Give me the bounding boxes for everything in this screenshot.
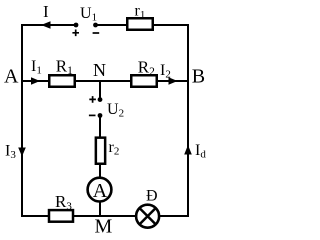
wire: r1 to top-right corner (152, 24, 189, 26)
svg-text:B: B (192, 65, 205, 87)
lamp D (circle with X) (136, 205, 159, 228)
terminal dot: U2 negative terminal (98, 113, 103, 118)
resistor R3 (49, 210, 73, 222)
terminal dot: U1 negative terminal (93, 23, 98, 28)
wire: right side, top-right corner down to node B (187, 24, 189, 81)
polarity sign - of U1 (93, 32, 100, 34)
current arrow Id (pointing up) on right wire (184, 145, 192, 155)
wire: middle row, R2 to node B (156, 80, 188, 82)
wire: bottom side, R3 through node M to lamp and bottom-right corner (72, 215, 188, 217)
terminal dot: U2 positive terminal (98, 97, 103, 102)
resistor R1 (49, 75, 75, 87)
polarity sign + of U1 (72, 30, 79, 37)
terminal dot: U1 positive terminal (74, 23, 79, 28)
polarity sign - of U2 (89, 114, 96, 116)
wire: right side, node B down to bottom-right corner (187, 81, 189, 217)
wire: r2 down to ammeter (99, 162, 101, 178)
current arrow I1 (pointing right) on middle wire (31, 77, 40, 84)
wire: U1 right terminal to r1 (96, 24, 131, 26)
wire: bottom side, bottom-left corner to R3 (22, 215, 52, 217)
svg-text:A: A (4, 65, 19, 87)
ammeter A (88, 178, 112, 202)
wire: node N down to U2 + terminal (99, 81, 101, 99)
resistor r1 (127, 18, 153, 30)
wire: ammeter down to node M (99, 201, 101, 216)
wire: U2 - terminal down to r2 (99, 116, 101, 141)
svg-text:M: M (95, 215, 113, 237)
resistor r2 (96, 138, 105, 164)
current arrow I2 (pointing right) on middle wire (169, 77, 178, 84)
wire: middle row, node A to R1 (22, 80, 52, 82)
wire: left side, node A down to bottom-left corner (21, 81, 23, 217)
svg-text:A: A (93, 180, 108, 202)
current arrow I (pointing left) on top wire (41, 21, 51, 29)
resistor R2 (131, 75, 157, 87)
wire: middle row, R1 through node N to R2 (74, 80, 133, 82)
polarity sign + of U2 (89, 96, 96, 103)
wire: top side, top-left corner to U1 left terminal (22, 24, 76, 26)
svg-text:Đ: Đ (146, 188, 158, 205)
current arrow I3 (pointing down) on left wire (18, 148, 26, 157)
wire: left side, top-left corner down to node A (21, 24, 23, 81)
svg-text:N: N (93, 60, 106, 80)
svg-text:I: I (43, 2, 49, 21)
